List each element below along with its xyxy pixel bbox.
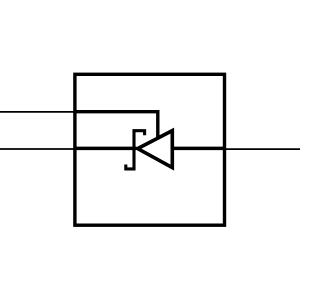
wire: top-left external lead (0, 111, 75, 113)
wire: cathode-side lead (internal right) (172, 147, 226, 151)
component box outline (75, 74, 225, 225)
wire: bottom-left external lead (0, 148, 75, 150)
wire: gate lead (bent, to triangle top edge) (74, 112, 158, 140)
thyristor Q1: hooked cathode bar (126, 131, 145, 169)
thyristor Q1: triangle (138, 131, 173, 168)
wire: anode lead (internal left) (74, 147, 137, 151)
wire: right external lead (224, 148, 300, 150)
